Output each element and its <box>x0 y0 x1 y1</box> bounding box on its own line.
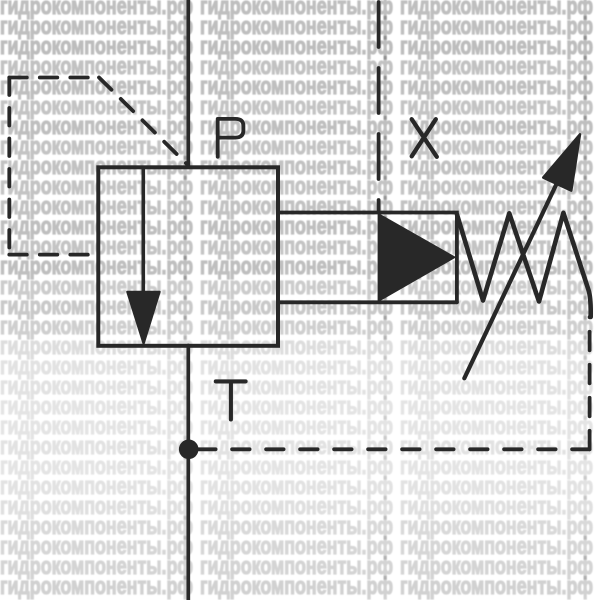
svg-text:гидрокомпоненты.рф: гидрокомпоненты.рф <box>0 573 193 600</box>
svg-text:гидрокомпоненты.рф: гидрокомпоненты.рф <box>400 573 593 600</box>
svg-text:гидрокомпоненты.рф: гидрокомпоненты.рф <box>200 573 393 600</box>
